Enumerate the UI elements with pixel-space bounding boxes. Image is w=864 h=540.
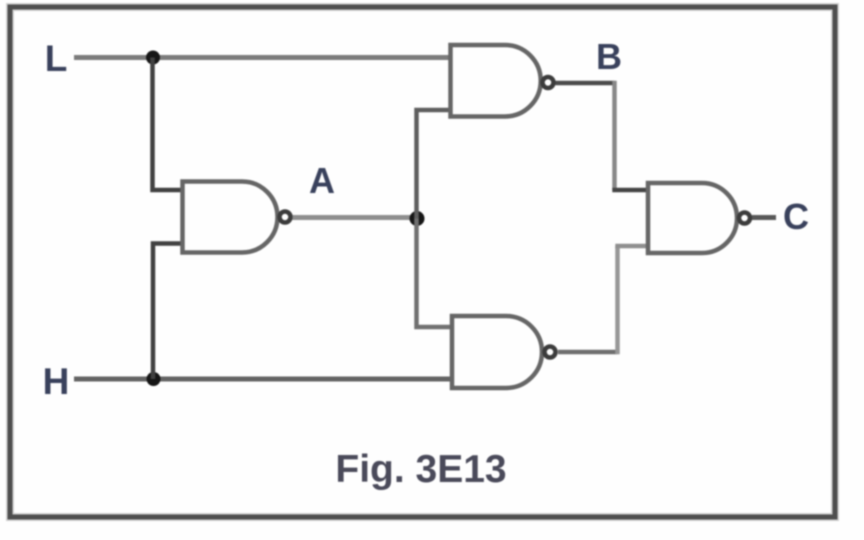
wire: U2 output B to gate U4 upper input (556, 81, 615, 86)
svg-text:H: H (43, 361, 70, 402)
wire: stub into U4 upper input (612, 188, 649, 193)
wire: L junction down to gate U1 upper input (153, 58, 183, 191)
junction on H wire (147, 372, 161, 386)
junction on L wire (146, 51, 160, 65)
svg-text:B: B (596, 36, 622, 77)
wire: U4 output to C (752, 215, 776, 220)
node A junction (410, 211, 425, 226)
wire: U3 output to gate U4 lower input (558, 350, 618, 355)
NAND gate U4 (right) (648, 183, 750, 253)
wire: stub into U4 lower input (615, 244, 649, 249)
wire: B vertical segment down (612, 81, 617, 190)
wire: H input horizontal to gate U3 (74, 377, 454, 382)
svg-text:L: L (45, 38, 68, 79)
svg-text:Fig. 3E13: Fig. 3E13 (335, 448, 506, 491)
NAND gate U2 (top) (451, 45, 554, 117)
NAND gate U1 (left middle) (183, 182, 291, 253)
wire: H junction up to gate U1 lower input (153, 244, 182, 380)
wire: node A up to gate U2 lower input (417, 110, 451, 219)
wire: L input horizontal to gate U2 (74, 55, 452, 60)
wire: node A down to gate U3 upper input (417, 219, 453, 328)
svg-text:C: C (783, 196, 809, 237)
NAND gate U3 (bottom) (452, 316, 556, 388)
wire: U1 output to node A (293, 215, 418, 220)
svg-text:A: A (309, 160, 335, 201)
wire: U3 output vertical segment up (615, 246, 620, 354)
